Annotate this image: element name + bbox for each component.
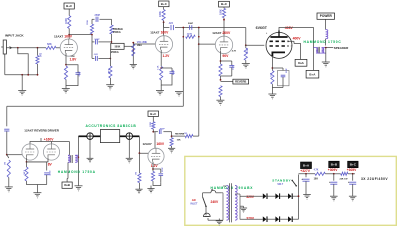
wire bass wiper to volume: [124, 42, 134, 58]
wire secondary top: [0, 0, 1, 1]
label STANDBY switch: [272, 179, 291, 186]
wire B+C to R17: [152, 116, 154, 121]
resistor R17 100K recovery plate: [150, 121, 155, 129]
wire d5-d6: [280, 218, 288, 220]
wire 6V6 plate to OT: [279, 28, 313, 48]
ground V3 cathode: [216, 100, 224, 107]
svg-text:REVERB: REVERB: [235, 80, 246, 84]
net box B+C (V3 plate supply): [219, 1, 230, 7]
wire mid to ground: [109, 78, 111, 85]
inductor OT primary: [326, 30, 328, 46]
wire V1 plate to C2: [69, 19, 111, 34]
wire cathode loop: [66, 65, 78, 89]
svg-text:500K: 500K: [115, 45, 121, 48]
svg-text:.022: .022: [168, 22, 173, 25]
wire shielded in: [79, 135, 87, 137]
capacitor C2 250P coupling: [95, 14, 101, 22]
junction input node: [10, 47, 39, 49]
voltage 160V V2 plate: [161, 31, 170, 35]
wire secondary bottom: [0, 0, 1, 1]
svg-text:+327V: +327V: [300, 169, 310, 173]
label 3X 22UF/450V: [361, 177, 388, 181]
svg-text:POWER: POWER: [320, 14, 333, 18]
voltage 1.2V recovery: [151, 164, 159, 168]
svg-text:1.2V: 1.2V: [163, 54, 171, 58]
wire plate to T2: [52, 142, 70, 156]
wire mix to V3 grid: [199, 43, 216, 45]
wire AC neutral: [208, 218, 221, 220]
wire OT primary to B+A: [312, 48, 314, 71]
resistor R10 100K plate V3: [220, 8, 226, 17]
wire input to grid: [6, 47, 60, 49]
voltage 160V reverb driver: [44, 138, 54, 142]
resistor R3 100K plate: [65, 16, 71, 29]
wire B+ rail a: [299, 173, 316, 177]
capacitor C3 500P slope: [91, 34, 112, 59]
svg-text:6.8K: 6.8K: [107, 69, 109, 74]
capacitor C12 recovery bypass: [153, 166, 164, 182]
svg-text:SPEAKER: SPEAKER: [334, 46, 349, 50]
ground speaker: [322, 62, 330, 69]
resistor R20 bleed: [170, 132, 185, 149]
ground input: [18, 91, 26, 98]
pot P3 reverb level: [172, 133, 199, 138]
net box B+C (V1 plate supply): [64, 3, 74, 9]
wire 6V6 cathode: [272, 56, 274, 70]
triode V5a reverb driver: [22, 144, 38, 160]
svg-text:320V: 320V: [246, 195, 255, 199]
wire V2 cathode: [160, 50, 162, 69]
voltage 400V OT: [0, 0, 1, 1]
resistor R22 rail 2: [340, 172, 349, 180]
svg-text:1M: 1M: [184, 133, 187, 135]
ground 6V6 grid: [242, 64, 250, 71]
capacitor C1 25uF bypass: [76, 70, 81, 78]
svg-text:25UF: 25UF: [233, 64, 235, 70]
triode V5b reverb driver: [43, 144, 59, 160]
wire 6V6 grid feed: [245, 28, 264, 47]
svg-text:1MA: 1MA: [137, 44, 142, 47]
voltage 1.2V V2 cathode: [163, 54, 171, 58]
resistor R12 tail: [219, 86, 222, 101]
wire V1 cathode: [65, 53, 67, 66]
svg-text:+309V: +309V: [328, 168, 338, 172]
voltage 160V recovery: [156, 142, 165, 146]
transformer T1 output: [313, 47, 325, 54]
svg-text:INPUT JACK: INPUT JACK: [5, 34, 24, 38]
svg-text:200V: 200V: [222, 31, 231, 35]
wire V3 cathode: [220, 51, 222, 64]
svg-text:12AX7: 12AX7: [54, 34, 64, 38]
ground volume: [130, 65, 137, 71]
svg-text:3X 22UF/450V: 3X 22UF/450V: [361, 177, 388, 181]
wire ground bus input: [21, 74, 38, 91]
wire T2 secondary hot: [78, 136, 79, 186]
ground bleed: [168, 148, 175, 154]
capacitor C8 cathode V3: [221, 61, 235, 76]
wire grid V5a: [6, 154, 22, 156]
label INPUT JACK: [5, 34, 24, 38]
svg-text:8oB: 8oB: [64, 183, 71, 187]
voltage 200V V3 plate: [222, 31, 231, 35]
resistor R2 1M grid leak: [36, 48, 43, 75]
svg-text:4.7K: 4.7K: [232, 50, 237, 53]
voltage +160V V1 plate: [64, 35, 73, 39]
svg-text:25UF: 25UF: [173, 69, 175, 75]
capacitor C15 filter C: [348, 180, 356, 196]
ground filter B: [330, 196, 338, 202]
ground recovery grid: [135, 189, 142, 195]
wire volume wiper to V2 grid: [133, 43, 155, 45]
ground T2 bottom: [75, 186, 83, 193]
triode V1: [60, 39, 77, 56]
svg-text:1.8V: 1.8V: [70, 57, 78, 61]
svg-text:+160V: +160V: [44, 138, 54, 142]
svg-text:2.2K: 2.2K: [23, 170, 25, 175]
svg-text:12AX7 REVERB DRIVER: 12AX7 REVERB DRIVER: [24, 129, 60, 133]
resistor R1 68K grid stopper: [46, 42, 56, 49]
resistor R6 100K plate V2: [159, 10, 165, 21]
label 4.7K: [232, 50, 237, 53]
svg-text:+: +: [329, 180, 331, 184]
svg-text:HAMMOND 1750C: HAMMOND 1750C: [304, 40, 342, 44]
wire B+B cap: [333, 174, 335, 181]
wire volume to ground: [132, 58, 134, 65]
ground 6V6 cathode: [268, 94, 276, 101]
resistor R14 470 cathode 6V6: [269, 71, 274, 85]
connector J3 reverb return: [126, 133, 133, 140]
net box POWER: [317, 13, 335, 19]
transformer T2 reverb: [68, 155, 79, 163]
wire T2 bottom: [66, 162, 69, 182]
capacitor C11 450P: [155, 127, 172, 134]
net box B+C (recovery supply): [148, 111, 159, 116]
svg-text:6V6GT: 6V6GT: [256, 26, 268, 30]
label HAMMOND 1750A: [58, 170, 96, 174]
ground reverb grid leak: [5, 187, 13, 194]
ground reverb cathode: [33, 193, 41, 200]
diode D1: [240, 193, 267, 199]
svg-text:100K: 100K: [220, 9, 223, 15]
svg-text:250KA: 250KA: [113, 31, 121, 34]
svg-text:500P: 500P: [188, 23, 194, 25]
ground center tap: [240, 208, 247, 214]
wire V2 plate coupling: [164, 22, 246, 27]
capacitor C5 bypass V2: [161, 68, 175, 83]
power supply enclosure: [185, 156, 396, 225]
dark box B+B: [329, 161, 340, 168]
wire dry send down: [182, 27, 184, 107]
resistor R11 cathode V3: [219, 64, 222, 81]
pentode V4 6V6GT: [266, 30, 293, 58]
svg-text:450P: 450P: [160, 127, 166, 130]
diode D5: [275, 216, 279, 222]
label SPEAKER: [334, 46, 349, 50]
input jack J1: [1, 40, 6, 58]
resistor R5 6.8K mid: [107, 66, 112, 78]
svg-text:100K: 100K: [159, 11, 162, 17]
svg-text:B+A: B+A: [303, 163, 310, 167]
wire recovery cathode: [152, 162, 154, 172]
wire dry bus to reverb driver: [7, 106, 184, 126]
label 12AX7 REVERB DRIVER: [24, 129, 60, 133]
wire d4-d5: [268, 218, 276, 220]
voltage 90V V3 cathode: [222, 54, 229, 58]
svg-text:B+C: B+C: [161, 2, 168, 6]
ground V2 cathode: [156, 91, 164, 98]
connector J2 reverb send: [87, 133, 101, 140]
wire cathode to ground: [272, 84, 283, 94]
voltage +305V: [347, 168, 357, 172]
resistor R19 recovery grid leak: [135, 153, 141, 189]
svg-text:STANDBY: STANDBY: [272, 179, 291, 183]
voltage 408V plate: [285, 26, 294, 30]
wire shielded out: [120, 135, 126, 137]
voltage +309V: [328, 168, 338, 172]
wire rail to B+C: [348, 173, 355, 181]
wire R6 to plate V2: [163, 20, 165, 35]
wire OT secondary to speaker: [325, 47, 333, 49]
capacitor C10 reverb cathode: [27, 162, 51, 193]
svg-text:+305V: +305V: [347, 168, 357, 172]
svg-text:68K: 68K: [47, 42, 52, 46]
svg-text:1.5K: 1.5K: [158, 65, 160, 70]
capacitor C7 reverb send: [4, 129, 9, 155]
label 6V6GT: [256, 26, 268, 30]
svg-text:1M: 1M: [5, 162, 7, 165]
svg-text:B+C: B+C: [150, 112, 157, 116]
ground mix: [175, 92, 183, 99]
wire B+C to R3: [68, 9, 70, 16]
net box B+C (V2 plate supply): [159, 1, 169, 7]
voltage 320V bottom: [246, 216, 255, 220]
resistor R5a slope 100K: [87, 19, 93, 34]
ground V1 cathode: [62, 89, 70, 96]
wire d1-d2: [268, 195, 276, 197]
svg-text:1.2V: 1.2V: [151, 164, 159, 168]
label 12AX7 V3: [212, 31, 222, 35]
svg-text:25UF: 25UF: [162, 166, 164, 172]
dark box B+A: [301, 162, 312, 169]
svg-text:160V: 160V: [161, 31, 170, 35]
diode D4: [240, 216, 267, 222]
net box 8oA: [295, 59, 307, 66]
voltage 8V cathode: [48, 163, 53, 167]
svg-text:B+B: B+B: [331, 163, 338, 167]
svg-text:SW-T: SW-T: [277, 184, 283, 186]
svg-text:250KA: 250KA: [111, 51, 119, 54]
svg-text:320V: 320V: [246, 216, 255, 220]
wire speaker to ground: [325, 48, 327, 62]
svg-text:25UF: 25UF: [48, 171, 50, 177]
svg-text:25UF: 25UF: [79, 70, 81, 76]
label ACCUTRONICS 8AB3C1B: [86, 124, 137, 128]
capacitor C6 .022 coupling: [168, 22, 173, 30]
voltage 1.8V V1 cathode: [70, 57, 78, 61]
wire to recovery grid: [133, 136, 149, 154]
svg-text:8oA: 8oA: [298, 61, 305, 65]
wire R3 to plate: [68, 29, 70, 40]
svg-text:160V: 160V: [64, 35, 73, 39]
svg-text:100K: 100K: [65, 18, 68, 24]
ground tank connector: [126, 158, 133, 164]
wire d2-d3: [280, 195, 288, 197]
capacitor C9 cathode 6V6: [272, 67, 289, 85]
svg-text:25UF: 25UF: [286, 67, 288, 73]
svg-text:100K: 100K: [150, 121, 152, 127]
voltage 240V primary: [211, 200, 220, 204]
svg-text:1M: 1M: [39, 53, 43, 57]
pot P2 bass box: [111, 43, 124, 54]
resistor R16 2.2K cathode reverb: [23, 167, 29, 181]
pot P3v volume 1MA: [132, 41, 148, 56]
svg-text:B+C: B+C: [350, 163, 357, 167]
capacitor C6b 500P bypass: [188, 23, 194, 30]
wire connector ground: [128, 139, 130, 158]
dark box B+C: [348, 161, 359, 168]
svg-text:10K: 10K: [177, 140, 181, 142]
svg-text:B+C: B+C: [66, 4, 73, 8]
voltage 400V screen: [293, 37, 302, 41]
AC inlet symbol: [203, 213, 210, 216]
triode V2: [155, 36, 172, 53]
svg-text:220K: 220K: [187, 33, 193, 35]
ground filter A: [303, 195, 311, 201]
capacitor C13 filter A: [301, 177, 309, 195]
label 1.5K: [71, 56, 76, 58]
wire J2 shield to ground: [89, 139, 91, 158]
capacitor C14 filter B: [329, 180, 337, 196]
svg-text:B+A: B+A: [309, 72, 316, 76]
diode D2: [275, 193, 279, 199]
svg-text:100K: 100K: [87, 20, 89, 25]
svg-text:ACCUTRONICS 8AB3C1B: ACCUTRONICS 8AB3C1B: [86, 124, 137, 128]
wire reverb driver plates: [30, 138, 52, 144]
diode D6: [288, 216, 292, 222]
ground tone stack: [106, 85, 114, 92]
fuse F1: [203, 188, 221, 192]
svg-text:220K: 220K: [247, 47, 249, 53]
resistor R18 recovery cathode: [151, 171, 161, 188]
resistor R7 1.5K cathode V2: [158, 65, 172, 90]
label 12AX7 V2: [150, 31, 160, 35]
wire jack sleeve: [5, 48, 28, 75]
wire B+C to R6: [163, 7, 165, 10]
ground J2 shield: [87, 158, 94, 164]
wire R17 to plate: [152, 129, 155, 149]
svg-text:4.7K: 4.7K: [314, 169, 319, 172]
wire screen stub: [289, 41, 295, 43]
wire POWER to OT: [325, 19, 327, 29]
svg-text:B+C: B+C: [221, 2, 228, 6]
svg-text:12AX7: 12AX7: [143, 142, 153, 146]
resistor R4 1.5K cathode: [64, 66, 67, 80]
svg-text:240V: 240V: [211, 200, 220, 204]
ground filter C: [349, 196, 357, 202]
resistor R8 mix 220K: [186, 33, 196, 38]
label 12AX7 V1: [54, 34, 64, 38]
switch S2 mains: [203, 193, 207, 214]
svg-text:+: +: [301, 177, 303, 181]
svg-text:INLET: INLET: [191, 202, 198, 205]
triode V6 recovery: [148, 148, 164, 164]
svg-text:250P: 250P: [95, 14, 101, 17]
net box 8oB: [62, 182, 72, 188]
label HAMMOND 290ABX: [211, 186, 254, 190]
svg-text:400V: 400V: [293, 37, 302, 41]
resistor R15 1M grid leak reverb: [5, 155, 11, 187]
diode D3: [288, 193, 292, 199]
wire R10 to V3 plate: [223, 18, 225, 37]
resistor R13 220K grid leak: [244, 45, 249, 63]
wire cathodes join: [26, 158, 48, 168]
wire rectifier join: [292, 175, 299, 220]
svg-text:408V: 408V: [285, 26, 294, 30]
svg-text:HAMMOND 1750A: HAMMOND 1750A: [58, 170, 96, 174]
svg-text:90V: 90V: [222, 54, 229, 58]
wire B+C to R10: [223, 7, 225, 8]
net box B+A output: [306, 70, 319, 78]
net box REVERB tap: [221, 79, 249, 84]
svg-text:500P: 500P: [95, 39, 101, 41]
wire 8oA feed: [294, 44, 301, 60]
voltage 320V top: [246, 195, 255, 199]
ground AC safety: [216, 219, 223, 227]
svg-text:1.5K: 1.5K: [71, 56, 76, 58]
reverb tank box: [100, 130, 119, 143]
voltage +327V: [300, 169, 310, 173]
label 12AX7 recovery: [143, 142, 153, 146]
triode V3: [215, 36, 232, 53]
svg-text:+: +: [348, 180, 350, 184]
label HAMMOND 1750C: [304, 40, 342, 44]
transformer T3 power: [221, 183, 240, 222]
ground recovery cathode: [147, 189, 154, 195]
switch S1 standby: [291, 180, 297, 187]
svg-text:160V: 160V: [156, 142, 165, 146]
pot P1 treble 250KA: [110, 19, 123, 43]
svg-text:12AX7: 12AX7: [212, 31, 222, 35]
capacitor C4 .022 bass: [92, 54, 111, 61]
wire CT: [240, 206, 244, 208]
label AC INLET: [191, 198, 198, 205]
wire mid node: [109, 49, 111, 66]
wire wet return: [198, 27, 200, 137]
svg-text:12AX7: 12AX7: [150, 31, 160, 35]
svg-text:10H: 10H: [314, 178, 319, 180]
wire rail to B+B: [325, 173, 340, 175]
resistor R21 rail: [314, 169, 326, 181]
svg-text:1M: 1M: [135, 172, 137, 175]
